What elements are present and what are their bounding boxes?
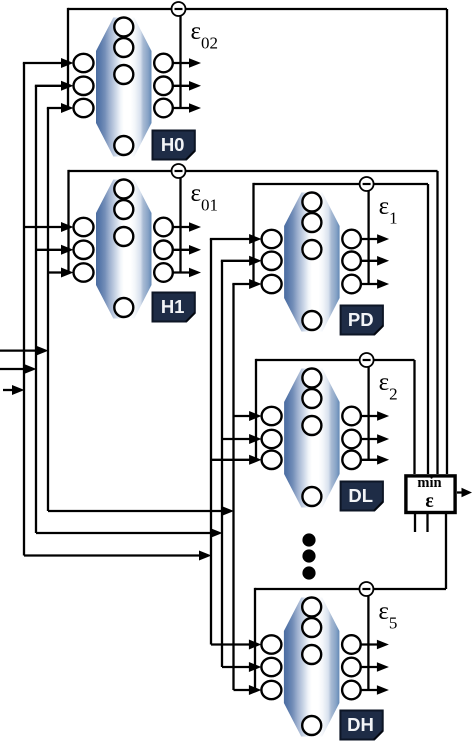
wire: DH output collection line xyxy=(367,596,369,690)
svg-text:DL: DL xyxy=(348,485,373,506)
H0 hidden-layer hexagon xyxy=(96,18,152,157)
wire: bus arrow into DH input 2 xyxy=(222,662,261,672)
network PD: feedback wire from input to comparator xyxy=(254,183,429,474)
wire: input bus A (x=24) xyxy=(23,63,25,556)
wire: feed bus C to bus F xyxy=(48,506,234,516)
external input arrow 2 xyxy=(0,364,37,374)
wire: feed bus A to bus D xyxy=(24,551,212,561)
DH hidden-layer hexagon xyxy=(284,598,340,737)
DH output arrows xyxy=(361,640,389,695)
DL comparator minus node xyxy=(360,353,374,367)
network DL: feedback wire from input to comparator xyxy=(256,359,415,474)
DL hidden neurons xyxy=(302,369,321,507)
wire: stub error line (omitted network) xyxy=(414,514,416,532)
network H1: feedback wire from input to comparator xyxy=(69,170,438,474)
H0 hidden neurons xyxy=(114,18,133,156)
wire: DL output collection line xyxy=(367,367,369,460)
PD output neurons xyxy=(342,230,361,294)
DL hidden-layer hexagon xyxy=(284,369,340,508)
PD output arrows xyxy=(361,234,389,289)
PD comparator minus node xyxy=(360,177,374,191)
external input arrow 1 xyxy=(0,346,49,356)
wire: bus arrow into PD input 1 xyxy=(210,234,262,244)
wire: bus arrow into DL input 3 xyxy=(211,455,262,465)
DH input neurons xyxy=(261,635,281,699)
wire: bus arrow into PD input 2 xyxy=(221,256,262,266)
svg-text:PD: PD xyxy=(348,309,374,330)
H1 output arrows xyxy=(173,222,201,277)
H1 comparator minus node xyxy=(172,164,186,178)
label box H0 xyxy=(153,131,195,160)
wire: stub error line (omitted network) xyxy=(426,514,428,532)
wire: PD output collection line xyxy=(367,191,369,284)
svg-text:DH: DH xyxy=(347,714,374,735)
wire: bus arrow into PD input 3 xyxy=(232,279,261,289)
wire: input bus C (x=48) xyxy=(47,108,49,511)
wire: bus arrow into H1 input 2 xyxy=(36,245,74,255)
min block output arrow xyxy=(457,488,472,498)
DH output neurons xyxy=(342,635,361,699)
H0 output arrows xyxy=(173,58,201,113)
PD input neurons xyxy=(262,230,282,293)
wire: bus arrow into H1 input 3 xyxy=(48,268,74,278)
H0 comparator minus node xyxy=(172,2,186,16)
wire: hidden bus F (x=233.5) xyxy=(232,284,234,690)
DH hidden neurons xyxy=(302,598,321,736)
external input arrow 3 xyxy=(3,385,25,395)
label box H1 xyxy=(153,293,195,322)
wire: H0 output collection line xyxy=(179,16,181,108)
wire: hidden bus E (x=222) xyxy=(221,261,223,667)
H0 output neurons xyxy=(154,54,173,118)
wire: hidden bus D (x=211) xyxy=(210,239,212,645)
PD hidden-layer hexagon xyxy=(284,193,340,332)
H1 output neurons xyxy=(154,218,173,282)
DL output neurons xyxy=(342,407,361,469)
label box DH xyxy=(340,711,382,740)
wire: bus arrow into H0 input 2 xyxy=(35,81,74,91)
svg-text:H1: H1 xyxy=(161,296,185,317)
wire: feed bus B to bus E xyxy=(36,528,223,538)
svg-text:ε: ε xyxy=(425,491,433,512)
label box PD xyxy=(341,306,383,335)
wire: H1 output collection line xyxy=(179,178,181,273)
wire: bus arrow into DL input 2 xyxy=(222,434,262,444)
svg-text:min: min xyxy=(417,475,441,491)
H0 input neurons xyxy=(74,54,94,117)
PD hidden neurons xyxy=(302,193,321,331)
DL output arrows xyxy=(361,411,389,464)
wire: bus arrow into DH input 1 xyxy=(211,640,261,650)
wire: bus arrow into H0 input 3 xyxy=(47,103,74,113)
ellipsis dots (omitted networks) xyxy=(302,533,315,579)
wire: input bus B (x=36) xyxy=(35,86,37,533)
label box DL xyxy=(341,482,383,511)
svg-text:H0: H0 xyxy=(161,134,185,155)
wire: bus arrow into DL input 1 xyxy=(234,411,262,421)
DL input neurons xyxy=(262,407,282,469)
min epsilon selector block U1 xyxy=(406,475,455,513)
network H0: feedback wire from input to comparator xyxy=(68,8,447,474)
H1 hidden neurons xyxy=(114,180,133,318)
DH comparator minus node xyxy=(359,582,373,596)
H1 hidden-layer hexagon xyxy=(96,180,152,319)
wire: bus arrow into H0 input 1 xyxy=(23,58,74,68)
network DH: feedback wire from input to comparator xyxy=(255,514,446,690)
wire: bus arrow into H1 input 1 xyxy=(24,222,74,232)
H1 input neurons xyxy=(74,218,94,282)
wire: bus arrow into DH input 3 xyxy=(234,685,262,695)
